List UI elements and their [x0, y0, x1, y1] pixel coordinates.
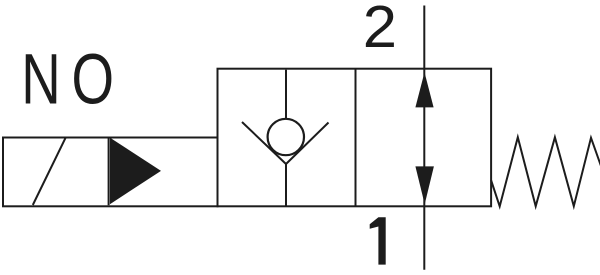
svg-text:NO: NO: [21, 41, 125, 119]
svg-text:2: 2: [363, 0, 397, 60]
